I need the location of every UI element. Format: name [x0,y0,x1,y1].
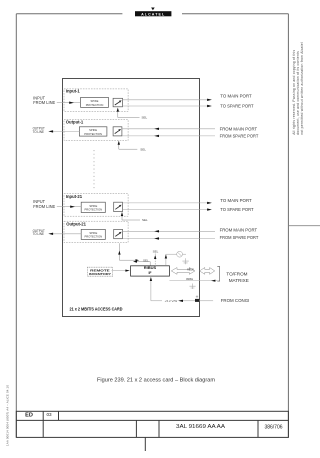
svg-text:1AA 00014 0004 (9007) A4 – ALI: 1AA 00014 0004 (9007) A4 – ALICE 04.10 [6,385,10,446]
svg-text:MATRIXE: MATRIXE [229,278,249,283]
svg-text:SPIKE: SPIKE [89,204,97,208]
svg-text:SEL: SEL [142,116,148,120]
spike protection U1 [81,97,109,107]
svg-text:FROM LINE: FROM LINE [33,100,55,105]
svg-text:Output-21: Output-21 [66,222,86,227]
sel net output-21 [118,243,149,262]
svg-text:Input-21: Input-21 [66,194,83,199]
svg-text:FROM LINE: FROM LINE [33,204,55,209]
page frame [16,14,288,437]
svg-text:TO SPARE PORT: TO SPARE PORT [220,207,253,212]
svg-text:SEL: SEL [142,218,148,222]
wire to spare port 21 [123,209,208,211]
svg-text:PROTECTION: PROTECTION [84,208,102,212]
switch S2 [113,127,122,136]
wire input from line 21 [57,206,81,208]
svg-text:TO LINE: TO LINE [33,231,45,236]
svg-text:SEL: SEL [140,147,146,151]
wire from main port [122,128,215,130]
wire to main port 21 [123,202,208,204]
switch S1 [113,98,122,107]
wire input from line [57,102,81,104]
svg-text:03: 03 [46,412,52,417]
svg-text:PROTECTION: PROTECTION [84,235,102,239]
svg-text:TO/FROM: TO/FROM [226,272,247,277]
wire to spare port [123,105,208,107]
alcatel logo [135,8,171,17]
ribus if block [131,266,170,276]
fold mark right margin [288,225,320,227]
svg-text:TO SPARE PORT: TO SPARE PORT [220,104,253,109]
wire to main port [123,99,208,101]
footer texts [25,412,283,430]
footer title block [16,411,288,451]
svg-text:FROM SPARE PORT: FROM SPARE PORT [220,133,259,138]
remote inventory block [87,267,112,276]
svg-text:INPUT: INPUT [33,199,45,204]
svg-text:FROM MAIN PORT: FROM MAIN PORT [220,228,258,233]
matrix hollow arrow [200,268,215,275]
svg-text:+5.2 V/W: +5.2 V/W [165,299,178,303]
svg-text:Figure 239. 21 x 2 access card: Figure 239. 21 x 2 access card – Block d… [97,377,215,383]
ribus hollow arrow [171,267,195,274]
f net to test point [165,254,177,266]
wire from spare port 21 [123,238,216,240]
svg-text:21 x 2 MBIT/S ACCESS CARD: 21 x 2 MBIT/S ACCESS CARD [70,307,123,312]
wire from main port 21 [123,230,216,232]
svg-text:386/706: 386/706 [264,424,282,430]
wire output to line 21 [53,233,82,235]
svg-text:Input-1: Input-1 [66,89,81,94]
sel return wire from ribus if [133,261,150,266]
svg-text:SEL: SEL [153,250,159,254]
right margin copyright note [292,42,304,135]
ground symbol below cmisg [189,284,195,290]
svg-text:not permitted without written: not permitted without written authorizat… [300,42,304,135]
sel net ribus up [153,250,159,266]
fuse F1 [195,299,199,302]
svg-text:TO MAIN PORT: TO MAIN PORT [220,198,252,203]
card outline [63,79,200,317]
sel net output-1 [118,141,147,152]
svg-text:CMISG: CMISG [186,277,193,281]
svg-text:3AL 91669 AA AA: 3AL 91669 AA AA [176,424,226,430]
wire output to line [53,130,80,132]
switch S3 [114,202,123,211]
svg-text:PROTECTION: PROTECTION [84,132,102,136]
wire remote inventory to ribus [112,270,126,272]
svg-text:FROM SPARE PORT: FROM SPARE PORT [220,235,259,240]
svg-text:RIBUS: RIBUS [144,266,157,270]
cmisg wire [169,277,217,282]
wire from spare port [122,135,215,137]
svg-text:FROM MAIN PORT: FROM MAIN PORT [220,126,258,131]
svg-text:SPIKE: SPIKE [89,231,97,235]
output-1 dashed block [64,120,128,141]
svg-text:TO LINE: TO LINE [33,129,45,134]
svg-text:SPIKE: SPIKE [89,128,97,132]
input-21 dashed block [64,194,128,217]
svg-text:SPIKE: SPIKE [91,99,99,103]
svg-text:INVENTORY: INVENTORY [89,272,112,276]
sel net input-21 [121,212,148,222]
spike protection U4 [81,229,105,239]
left margin form number [6,385,10,446]
continuation dots [93,150,95,190]
+5V supply wire [150,277,213,303]
sel net input-1 [117,108,148,120]
svg-text:ALCATEL: ALCATEL [141,12,165,16]
test point TP1 [177,251,186,257]
svg-text:Output-1: Output-1 [66,120,84,125]
svg-text:RIBUS: RIBUS [187,267,194,271]
svg-text:ED: ED [25,412,33,418]
output-21 dashed block [64,221,128,242]
switch S4 [114,229,123,238]
svg-text:TO MAIN PORT: TO MAIN PORT [220,94,252,99]
input-1 dashed block [64,89,128,112]
ground symbol near test point [182,258,188,264]
spike protection U3 [81,202,105,212]
bracket [217,267,219,282]
svg-text:PROTECTION: PROTECTION [86,103,104,107]
svg-text:IF: IF [148,271,151,275]
spike protection U2 [79,127,107,136]
svg-text:FROM CONGI: FROM CONGI [221,298,250,303]
